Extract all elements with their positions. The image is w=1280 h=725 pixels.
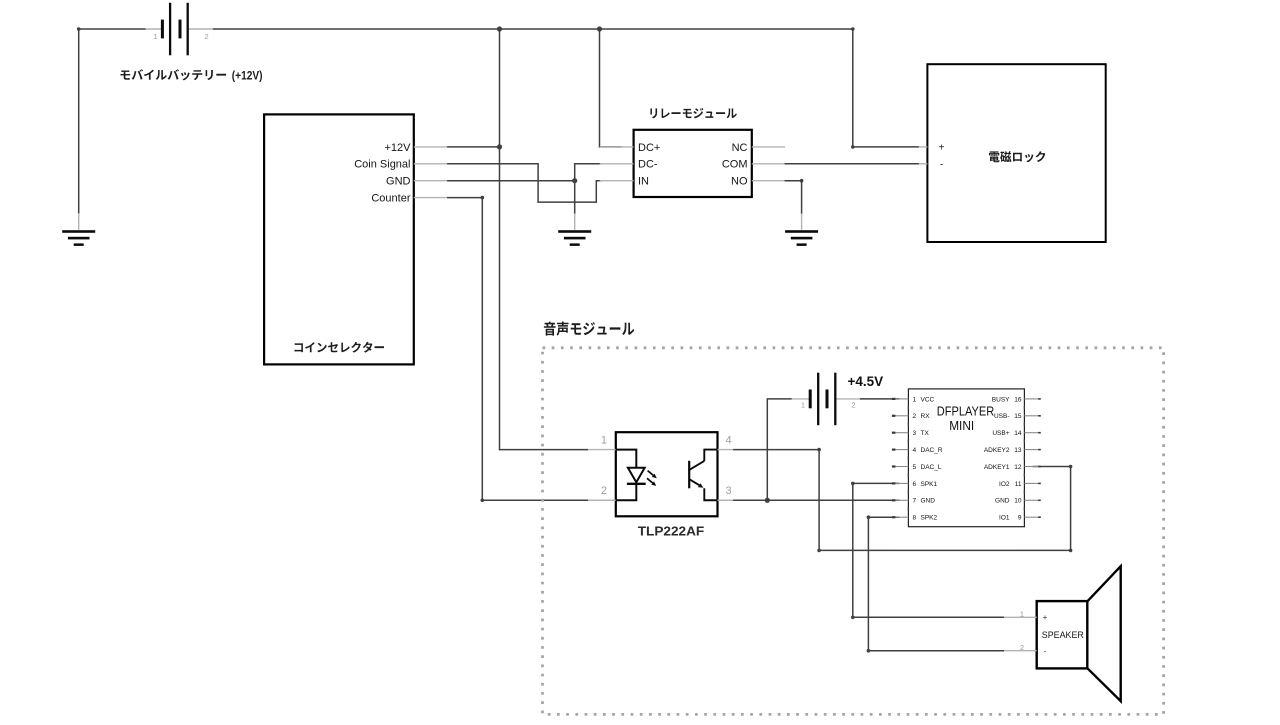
wire COM to lock minus bbox=[785, 163, 919, 165]
wire +12V rail to optocoupler pin 1 bbox=[500, 449, 589, 451]
coin selector box コインセレクター bbox=[264, 114, 414, 364]
pin 7 GND of DFPlayer bbox=[894, 499, 909, 501]
svg-text:COM: COM bbox=[722, 159, 748, 171]
wire SPK1 to speaker plus bbox=[853, 616, 1004, 618]
svg-text:11: 11 bbox=[1015, 481, 1022, 488]
wire rise to ADKEY1 bbox=[1070, 467, 1072, 551]
speaker box bbox=[1037, 601, 1088, 668]
label coin selector コインセレクター bbox=[295, 342, 384, 353]
speaker horn bbox=[1087, 566, 1120, 701]
svg-text:ADKEY1: ADKEY1 bbox=[984, 464, 1010, 471]
svg-text:2: 2 bbox=[601, 485, 607, 497]
wire Coin Signal rise to IN bbox=[595, 181, 597, 202]
svg-text:1: 1 bbox=[1020, 610, 1024, 619]
pin 11 IO2 of DFPlayer bbox=[1024, 482, 1039, 484]
pin 12 ADKEY1 of DFPlayer bbox=[1024, 466, 1039, 468]
bendpoints bbox=[77, 27, 1072, 652]
svg-text:2: 2 bbox=[851, 401, 855, 410]
electromagnetic lock box 電磁ロック bbox=[927, 64, 1105, 242]
junction GND net audio module bbox=[765, 498, 770, 503]
pin ground G1 terminal bbox=[78, 213, 80, 230]
pin 4 DAC_R of DFPlayer bbox=[894, 449, 909, 451]
svg-text:7: 7 bbox=[913, 498, 917, 505]
svg-text:12: 12 bbox=[1014, 464, 1022, 471]
svg-text:10: 10 bbox=[1014, 498, 1022, 505]
svg-text:GND: GND bbox=[995, 498, 1010, 505]
svg-text:IO2: IO2 bbox=[999, 481, 1010, 488]
svg-text:TLP222AF: TLP222AF bbox=[638, 524, 705, 538]
wire GND junction down to ground G2 bbox=[574, 181, 576, 214]
label battery BT1 モバイルバッテリー（+12V） bbox=[121, 68, 263, 82]
pin minus of speaker bbox=[1004, 650, 1037, 652]
battery BT2 +4.5V bbox=[792, 373, 861, 426]
wire GND into relay DC- bbox=[575, 163, 601, 165]
pin plus of lock bbox=[919, 146, 928, 148]
junction top rail at DC+ drop bbox=[597, 26, 602, 31]
LED D1 inside optocoupler bbox=[616, 450, 646, 501]
svg-text:ADKEY2: ADKEY2 bbox=[984, 447, 1010, 454]
pin 16 BUSY of DFPlayer bbox=[1024, 398, 1039, 400]
LED light emission arrows bbox=[648, 471, 654, 476]
label relay module リレーモジュール bbox=[650, 108, 736, 119]
wire Coin Signal jog bbox=[538, 201, 596, 203]
pin ground G2 terminal bbox=[574, 214, 576, 230]
wire SPK1 from pin 6 bbox=[853, 482, 899, 484]
pin 9 IO1 of DFPlayer bbox=[1024, 516, 1039, 518]
svg-text:2: 2 bbox=[205, 32, 209, 41]
wire battery negative drop bbox=[78, 29, 80, 213]
wire Counter vertical down to optocoupler pin 2 bbox=[481, 198, 483, 501]
wire GND junction up to DC- bbox=[574, 164, 576, 181]
svg-text:3: 3 bbox=[726, 485, 732, 497]
svg-text:DFPLAYER: DFPLAYER bbox=[937, 404, 995, 418]
svg-text:+: + bbox=[939, 142, 945, 153]
pin DC- of relay bbox=[600, 163, 634, 165]
svg-text:SPK2: SPK2 bbox=[921, 515, 938, 522]
ground G3 bbox=[785, 230, 818, 246]
wire SPK1 drop bbox=[852, 483, 854, 617]
ground G2 bbox=[558, 230, 591, 246]
wire battery BT2 minus vertical bbox=[766, 399, 768, 500]
DFPlayer Mini U2 box bbox=[908, 389, 1024, 527]
svg-text:GND: GND bbox=[386, 176, 411, 188]
svg-text:1: 1 bbox=[801, 401, 805, 410]
wire top rail from battery to lock bend bbox=[213, 28, 853, 30]
svg-text:GND: GND bbox=[921, 498, 936, 505]
svg-text:1: 1 bbox=[154, 32, 158, 41]
pin ground G3 terminal bbox=[801, 214, 803, 230]
svg-text:USB-: USB- bbox=[994, 413, 1010, 420]
wire into lock plus bbox=[853, 146, 919, 148]
wire +12V vertical rail down to optocoupler pin1 bbox=[499, 29, 501, 450]
wire NO down to ground G3 bbox=[801, 181, 803, 214]
svg-text:9: 9 bbox=[1018, 515, 1022, 522]
wire DC+ into relay bbox=[600, 146, 622, 148]
wire optocoupler pin3 to GND junction and pin 7 bbox=[734, 499, 899, 501]
pin NO of relay bbox=[752, 180, 785, 182]
svg-text:6: 6 bbox=[913, 481, 917, 488]
svg-text:4: 4 bbox=[726, 435, 732, 447]
wire Coin Signal into relay IN bbox=[596, 180, 601, 182]
svg-text:-: - bbox=[940, 159, 943, 170]
audio module dashed boundary 音声モジュール bbox=[543, 348, 1164, 715]
pin IN of relay bbox=[600, 180, 634, 182]
wire pin4 drop bbox=[818, 450, 820, 551]
pin 10 GND of DFPlayer bbox=[1024, 499, 1039, 501]
pin 2 of optocoupler bbox=[588, 499, 616, 501]
pin +12V of coin selector bbox=[414, 146, 448, 148]
wire Coin Signal horizontal bbox=[448, 163, 538, 165]
wire Counter to optocoupler pin 2 bbox=[482, 499, 588, 501]
svg-text:SPK1: SPK1 bbox=[921, 481, 938, 488]
svg-text:NC: NC bbox=[732, 142, 748, 154]
svg-text:4: 4 bbox=[913, 447, 917, 454]
pin 14 USB+ of DFPlayer bbox=[1024, 432, 1039, 434]
pin 3 TX of DFPlayer bbox=[894, 432, 909, 434]
wire NO short bbox=[785, 180, 801, 182]
wire into battery BT2 pin1 bbox=[767, 398, 791, 400]
svg-text:-: - bbox=[1044, 646, 1047, 656]
wire Counter horizontal bbox=[448, 197, 483, 199]
wire into DFPlayer pin 12 bbox=[1033, 466, 1071, 468]
pin 4 of optocoupler bbox=[718, 449, 734, 451]
svg-text:1: 1 bbox=[913, 396, 917, 403]
wire top rail battery left segment bbox=[79, 28, 146, 30]
pin plus of speaker bbox=[1004, 616, 1037, 618]
wire GND horizontal to junction bbox=[448, 180, 575, 182]
pin 1 of optocoupler bbox=[588, 449, 616, 451]
pin 13 ADKEY2 of DFPlayer bbox=[1024, 449, 1039, 451]
pin DC+ of relay bbox=[600, 146, 634, 148]
junction +12V pin bbox=[497, 144, 502, 149]
svg-text:BUSY: BUSY bbox=[992, 396, 1010, 403]
svg-text:SPEAKER: SPEAKER bbox=[1042, 630, 1084, 640]
battery BT1 bbox=[146, 3, 214, 56]
junction GND node bbox=[572, 178, 577, 183]
svg-text:+12V: +12V bbox=[385, 142, 412, 154]
svg-text:13: 13 bbox=[1014, 447, 1022, 454]
pin Coin Signal of coin selector bbox=[414, 163, 448, 165]
svg-text:Counter: Counter bbox=[371, 193, 410, 205]
phototransistor Q1 inside optocoupler bbox=[688, 450, 717, 501]
pin Counter of coin selector bbox=[414, 197, 448, 199]
wire +12V pin to vertical rail bbox=[448, 146, 500, 148]
svg-text:DC+: DC+ bbox=[638, 142, 660, 154]
optocoupler U1 TLP222AF box bbox=[616, 432, 718, 516]
junction top rail at +12V rail bbox=[497, 26, 502, 31]
svg-text:+4.5V: +4.5V bbox=[848, 374, 884, 389]
pin 15 USB- of DFPlayer bbox=[1024, 415, 1039, 417]
svg-text:USB+: USB+ bbox=[992, 430, 1009, 437]
svg-text:MINI: MINI bbox=[949, 419, 974, 433]
wire Coin Signal drop bbox=[537, 164, 539, 202]
svg-text:IO1: IO1 bbox=[999, 515, 1010, 522]
wire SPK2 to speaker minus bbox=[868, 650, 1004, 652]
pin 6 SPK1 of DFPlayer bbox=[894, 482, 909, 484]
wire SPK2 from pin 8 bbox=[868, 516, 899, 518]
pin 3 of optocoupler bbox=[718, 499, 734, 501]
pin GND of coin selector bbox=[414, 180, 448, 182]
pin 8 SPK2 of DFPlayer bbox=[894, 516, 909, 518]
svg-text:VCC: VCC bbox=[921, 396, 935, 403]
svg-text:DAC_L: DAC_L bbox=[921, 464, 942, 471]
pin 2 RX of DFPlayer bbox=[894, 415, 909, 417]
svg-text:+: + bbox=[1043, 612, 1048, 622]
header notch ticks on DFPlayer edges bbox=[908, 406, 1024, 511]
svg-text:16: 16 bbox=[1014, 396, 1022, 403]
svg-text:(+12V): (+12V) bbox=[232, 68, 263, 82]
svg-text:NO: NO bbox=[731, 176, 748, 188]
wire optocoupler pin4 to bend bbox=[734, 449, 819, 451]
ground G1 bbox=[62, 230, 95, 246]
svg-text:Coin Signal: Coin Signal bbox=[354, 159, 410, 171]
svg-text:DC-: DC- bbox=[638, 159, 658, 171]
svg-text:TX: TX bbox=[921, 430, 930, 437]
svg-text:2: 2 bbox=[913, 413, 917, 420]
relay module box リレーモジュール bbox=[634, 130, 752, 197]
pin COM of relay bbox=[752, 163, 785, 165]
svg-text:14: 14 bbox=[1014, 430, 1022, 437]
svg-text:8: 8 bbox=[913, 515, 917, 522]
label lock 電磁ロック bbox=[989, 151, 1045, 162]
wire DC+ vertical from top rail bbox=[599, 29, 601, 147]
pin minus of lock bbox=[919, 163, 928, 165]
svg-text:5: 5 bbox=[913, 464, 917, 471]
wire +12V drop to lock plus bbox=[852, 29, 854, 147]
pin 1 VCC of DFPlayer bbox=[894, 398, 909, 400]
pin 5 DAC_L of DFPlayer bbox=[894, 466, 909, 468]
svg-text:15: 15 bbox=[1014, 413, 1022, 420]
svg-text:1: 1 bbox=[601, 435, 607, 447]
svg-text:3: 3 bbox=[913, 430, 917, 437]
pin NC of relay bbox=[752, 146, 785, 148]
svg-text:2: 2 bbox=[1020, 643, 1024, 652]
svg-text:IN: IN bbox=[638, 176, 649, 188]
svg-text:RX: RX bbox=[921, 413, 931, 420]
svg-text:DAC_R: DAC_R bbox=[921, 447, 943, 454]
wire SPK2 drop bbox=[867, 517, 869, 651]
wire battery BT2 plus to VCC bbox=[860, 398, 899, 400]
wire pin4 long horizontal bbox=[819, 549, 1071, 551]
label audio module 音声モジュール bbox=[544, 322, 634, 336]
